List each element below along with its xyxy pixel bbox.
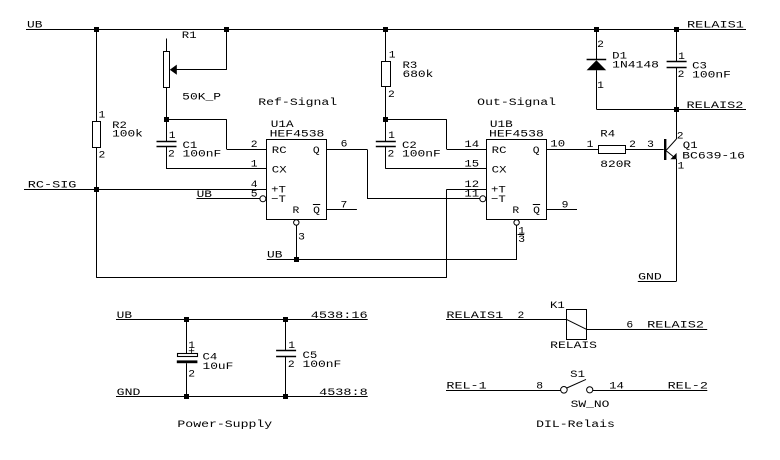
- wire D1 anode to RELAIS2: [596, 70, 598, 109]
- svg-text:7: 7: [341, 200, 348, 212]
- svg-text:2: 2: [288, 359, 295, 371]
- wire pin 13 to UB rail: [516, 225, 518, 259]
- wire C1 to U1A pin 1 (CX): [166, 147, 168, 169]
- wire node to U1A pin 2 (RC): [166, 119, 227, 121]
- svg-text:Power-Supply: Power-Supply: [177, 419, 272, 431]
- svg-text:CX: CX: [492, 165, 508, 177]
- svg-text:−T: −T: [491, 194, 506, 206]
- svg-text:2: 2: [388, 148, 395, 160]
- svg-text:100nF: 100nF: [183, 148, 222, 160]
- wire K1 to RELAIS2: [587, 329, 708, 331]
- junction GND rail / C5: [283, 394, 288, 399]
- svg-text:2: 2: [168, 148, 175, 160]
- svg-text:1: 1: [251, 158, 258, 170]
- svg-text:−T: −T: [271, 194, 286, 206]
- svg-text:820R: 820R: [600, 159, 632, 171]
- transistor Q1 BC639-16: [664, 139, 666, 160]
- svg-text:DIL-Relais: DIL-Relais: [536, 419, 615, 431]
- svg-text:680k: 680k: [403, 69, 434, 81]
- junction UB rail / C5: [283, 317, 288, 322]
- junction UB rail / U1A pin3: [294, 257, 299, 262]
- junction top rail / R1 wiper: [224, 27, 229, 32]
- svg-text:Ref-Signal: Ref-Signal: [258, 97, 337, 109]
- wire RC-SIG to U1A pin 4: [24, 189, 267, 191]
- svg-text:15: 15: [464, 158, 479, 170]
- pin 10 wire (Q) to R4: [546, 149, 599, 151]
- wire node to U1B pin 14 (RC): [386, 119, 447, 121]
- capacitor C5 100nF: [285, 320, 287, 351]
- capacitor C1 100nF: [166, 119, 168, 141]
- svg-text:1: 1: [597, 80, 604, 92]
- svg-text:2: 2: [678, 69, 685, 81]
- wire C4 to GND rail: [186, 363, 188, 397]
- svg-text:2: 2: [188, 369, 195, 381]
- svg-text:2: 2: [99, 150, 106, 162]
- svg-text:1: 1: [169, 130, 176, 142]
- wire RC-SIG to U1B pin 12 (bottom run): [96, 277, 447, 279]
- svg-text:2: 2: [251, 139, 258, 151]
- svg-text:Q: Q: [533, 145, 540, 157]
- svg-text:14: 14: [464, 139, 479, 151]
- svg-text:4538:8: 4538:8: [319, 387, 368, 399]
- svg-text:6: 6: [341, 139, 348, 151]
- pin 13 reset bubble U1B: [514, 220, 519, 225]
- junction R3/C2 node: [383, 117, 388, 122]
- wire UB bottom rail: [267, 259, 517, 261]
- junction top rail / R3: [383, 27, 388, 32]
- wire U1A Q to U1B pin 11: [367, 149, 369, 198]
- svg-text:SW_NO: SW_NO: [571, 399, 610, 411]
- svg-text:Out-Signal: Out-Signal: [477, 97, 556, 109]
- svg-text:R4: R4: [600, 128, 615, 140]
- wire S1 to REL-2: [593, 390, 708, 392]
- wire R2 to RC-SIG node: [96, 147, 98, 189]
- wire R3 to C2 node: [385, 86, 387, 119]
- svg-text:Q: Q: [313, 145, 320, 157]
- wire UB to C3: [676, 29, 678, 61]
- wire C5 to GND rail: [285, 357, 287, 397]
- svg-text:1: 1: [678, 161, 685, 173]
- svg-text:HEF4538: HEF4538: [489, 129, 544, 141]
- wire R4 to Q1 base: [626, 149, 664, 151]
- pin 7 stub (Qbar): [326, 209, 357, 211]
- pin 5 inversion bubble: [260, 196, 266, 202]
- wire UB to R3: [385, 29, 387, 61]
- svg-text:RC: RC: [492, 145, 507, 157]
- wire RELAIS1 to K1: [446, 319, 567, 321]
- pin 12 wire: [447, 189, 487, 191]
- wire RC-SIG node down: [96, 189, 98, 278]
- diode D1 1N4148: [587, 59, 607, 61]
- wire UB to D1 cathode: [596, 29, 598, 59]
- junction RELAIS2 / C3 / Q1: [674, 107, 679, 112]
- svg-text:8: 8: [536, 381, 543, 393]
- junction UB rail / C4: [184, 317, 189, 322]
- svg-text:+: +: [188, 347, 195, 359]
- wire power UB rail: [116, 319, 368, 321]
- wire Q1 emitter to GND: [676, 159, 678, 281]
- svg-text:1: 1: [288, 340, 295, 352]
- svg-text:10: 10: [550, 139, 565, 151]
- junction top rail / C3: [674, 27, 679, 32]
- wire R1 wiper to UB rail: [226, 29, 228, 69]
- svg-text:1N4148: 1N4148: [612, 59, 659, 71]
- svg-text:CX: CX: [272, 165, 288, 177]
- wire UB top rail: [26, 29, 746, 31]
- junction top rail / R2: [94, 27, 99, 32]
- resistor R3 680k: [382, 62, 391, 87]
- wire RELAIS2: [596, 109, 746, 111]
- svg-text:2: 2: [388, 89, 395, 101]
- svg-text:K1: K1: [550, 300, 565, 312]
- svg-text:UB: UB: [197, 189, 212, 201]
- svg-text:1: 1: [389, 50, 396, 62]
- svg-text:1: 1: [678, 51, 685, 63]
- junction R1/C1 node: [164, 117, 169, 122]
- svg-text:11: 11: [464, 189, 479, 201]
- junction GND rail / C4: [184, 394, 189, 399]
- svg-text:RELAIS: RELAIS: [550, 340, 597, 352]
- svg-text:100nF: 100nF: [402, 148, 441, 160]
- svg-text:100k: 100k: [112, 129, 143, 141]
- pin 11 inversion bubble: [480, 196, 486, 202]
- svg-text:UB: UB: [117, 310, 132, 322]
- capacitor C3 100nF: [667, 61, 687, 63]
- svg-text:2: 2: [518, 310, 525, 322]
- svg-text:RELAIS2: RELAIS2: [687, 100, 744, 112]
- svg-text:S1: S1: [570, 369, 585, 381]
- capacitor C4 10uF polarized: [186, 320, 188, 354]
- svg-text:BC639-16: BC639-16: [682, 151, 745, 163]
- svg-text:HEF4538: HEF4538: [270, 129, 325, 141]
- wire Q1 collector to RELAIS2 node: [676, 109, 678, 139]
- wire UB to R2: [96, 29, 98, 121]
- junction RC-SIG / R2: [94, 187, 99, 192]
- svg-text:10uF: 10uF: [203, 361, 234, 373]
- svg-text:4538:16: 4538:16: [311, 310, 368, 322]
- svg-text:RC: RC: [272, 145, 287, 157]
- svg-text:9: 9: [562, 200, 569, 212]
- svg-text:3: 3: [298, 232, 305, 244]
- svg-text:100nF: 100nF: [303, 359, 342, 371]
- capacitor C2 100nF: [385, 119, 387, 141]
- wiper arrow of R1: [170, 65, 177, 75]
- svg-text:14: 14: [609, 381, 624, 393]
- svg-text:3: 3: [518, 234, 525, 246]
- wire R1 bottom to node: [166, 87, 168, 119]
- svg-text:RELAIS1: RELAIS1: [687, 20, 744, 32]
- potentiometer R1 50K_P: [166, 39, 168, 52]
- svg-text:2: 2: [597, 39, 604, 51]
- wire REL-1 to S1: [446, 390, 561, 392]
- wire GND underline: [638, 281, 677, 283]
- svg-text:1: 1: [99, 110, 106, 122]
- svg-text:RELAIS2: RELAIS2: [647, 320, 704, 332]
- svg-text:3: 3: [647, 139, 654, 151]
- svg-text:1: 1: [388, 130, 395, 142]
- pin 6 wire (Q): [326, 149, 367, 151]
- junction top rail / D1: [594, 27, 599, 32]
- svg-text:REL-2: REL-2: [668, 381, 708, 393]
- svg-text:50K_P: 50K_P: [182, 91, 221, 103]
- svg-text:6: 6: [626, 320, 633, 332]
- svg-text:GND: GND: [117, 387, 141, 399]
- pin 3 reset bubble U1A: [294, 220, 299, 225]
- svg-text:R1: R1: [182, 30, 197, 42]
- svg-text:Q: Q: [533, 205, 540, 217]
- pin 9 stub (Qbar): [546, 209, 577, 211]
- svg-text:1: 1: [587, 139, 594, 151]
- wire power GND rail: [116, 396, 368, 398]
- wire pin 3 to UB rail: [296, 225, 298, 259]
- svg-text:R: R: [293, 205, 301, 217]
- wire C3 to RELAIS2: [676, 67, 678, 109]
- resistor R2 100k: [93, 122, 101, 148]
- svg-text:100nF: 100nF: [692, 70, 731, 82]
- svg-text:Q: Q: [313, 205, 320, 217]
- svg-text:R: R: [512, 205, 520, 217]
- wire C2 to U1B pin 15 (CX): [385, 147, 387, 169]
